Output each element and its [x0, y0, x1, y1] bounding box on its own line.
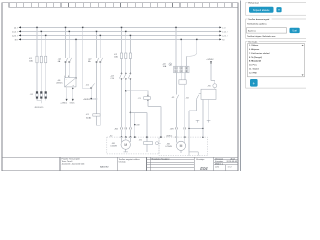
svg-text:Joonestik: Joonestik 02b: Joonestik: Joonestik 02b	[62, 163, 86, 166]
wire Q4 to overload	[181, 73, 185, 80]
bracket terminal under M2	[189, 152, 198, 156]
svg-text:L1 /: L1 /	[222, 27, 226, 29]
svg-text:24VDC: 24VDC	[56, 82, 63, 84]
svg-text:0.55kW: 0.55kW	[110, 146, 117, 148]
svg-text:-R1: -R1	[139, 140, 142, 142]
sheet frame	[2, 3, 238, 171]
node +24VDC / 0VDC arrows	[66, 99, 68, 101]
aux symbol on Q4	[169, 63, 172, 66]
enclosure dashed box M2	[159, 137, 208, 156]
title block	[2, 157, 238, 171]
ground stub under M1	[124, 149, 128, 152]
svg-text:M: M	[180, 144, 183, 148]
svg-text:A1 A2: A1 A2	[86, 117, 91, 120]
sidebar add button	[250, 79, 258, 87]
wire +24VDC to lamp	[211, 64, 215, 90]
svg-text:N /: N /	[15, 39, 18, 41]
wire A1 outputs	[203, 99, 209, 137]
wire to resistor R1	[130, 112, 147, 152]
node +24VDC rail	[90, 98, 92, 99]
svg-text:=: =	[73, 85, 74, 87]
fuse F2 (3 poles)	[120, 53, 131, 59]
svg-text:9. Mootorid: 9. Mootorid	[249, 60, 261, 63]
svg-text:11. Switch: 11. Switch	[249, 68, 260, 71]
svg-text:Tee lisale: Tee lisale	[248, 42, 258, 44]
svg-text:+24VDC: +24VDC	[60, 103, 68, 105]
sidebar button: Kopeeri alusele	[249, 7, 274, 13]
svg-text:-Y1: -Y1	[138, 98, 141, 100]
svg-text:Piirkonnad: Piirkonnad	[248, 2, 259, 5]
svg-text:8. N (Reegel): 8. N (Reegel)	[249, 57, 262, 59]
node taps on buses for F1	[36, 27, 46, 36]
svg-text:Kopeeri alusele: Kopeeri alusele	[253, 9, 270, 12]
svg-text:-X2: -X2	[109, 135, 112, 137]
bus L1	[14, 26, 226, 29]
terminal tee symbols	[196, 120, 211, 122]
wire Q4 pole1 to K1 main	[175, 73, 177, 95]
svg-text:12. HMI: 12. HMI	[249, 72, 257, 74]
svg-text:2016-06-03: 2016-06-03	[227, 161, 238, 163]
svg-text:M: M	[124, 143, 127, 147]
breaker Q2 (2 poles)	[96, 58, 103, 63]
svg-text:+24VDC: +24VDC	[83, 99, 91, 101]
wire 24V riser	[134, 112, 136, 137]
node junction to Y1	[125, 90, 127, 92]
panel group: Tee/lae broneeringuid	[246, 17, 307, 38]
sidebar small button	[276, 7, 281, 12]
sidebar button: Uuri	[290, 28, 300, 33]
control unit A1	[201, 89, 216, 99]
wire to solenoid Y1	[126, 91, 161, 137]
svg-text:Tee/lae/otsi aadress:: Tee/lae/otsi aadress:	[247, 22, 267, 25]
svg-text:Muudatus Kuupäev: Muudatus Kuupäev	[152, 157, 171, 160]
svg-text:+: +	[252, 81, 255, 86]
node taps for Q1	[65, 27, 70, 32]
svg-text:Otsinuk: Otsinuk	[119, 160, 127, 163]
svg-text:-S3: -S3	[186, 97, 189, 99]
connector contacts row (plug X2)	[121, 127, 132, 129]
column ruler strip	[9, 3, 238, 8]
wire drops to fuse F2	[122, 27, 131, 137]
breaker Q3 (3 poles)	[119, 73, 131, 80]
wire drops to starter Q4	[176, 27, 197, 66]
svg-text:7. Eriti/vastas ahelad: 7. Eriti/vastas ahelad	[249, 52, 270, 55]
wire N drop to PSU corner	[75, 39, 77, 77]
breaker Q1 (2 poles)	[65, 58, 72, 63]
sidebar input	[247, 28, 287, 33]
sensor B1	[155, 142, 158, 145]
panel group: Piirkonnad	[246, 1, 307, 15]
drawing canvas right border	[239, 1, 241, 172]
svg-text:4. Alajaam: 4. Alajaam	[249, 48, 259, 51]
contact S3	[196, 94, 201, 100]
svg-text:~: ~	[66, 80, 67, 82]
bus L2.1	[12, 34, 228, 37]
wire L1/L1.1/L2.1 drops to fuse F1	[37, 27, 46, 100]
wire riser to sensor	[158, 142, 161, 144]
svg-text:L1 /: L1 /	[14, 27, 18, 29]
svg-text:L2.1 /: L2.1 /	[222, 35, 228, 37]
wire bottom link	[189, 127, 203, 129]
list scrollbar	[302, 45, 304, 46]
svg-text:Leht: Leht	[215, 165, 219, 168]
wire K1 to M2	[175, 99, 177, 137]
wire M1 feeds	[122, 137, 131, 142]
node junction to R1	[130, 112, 132, 114]
svg-text:-K1: -K1	[86, 114, 89, 116]
relay coil K1	[93, 114, 100, 116]
svg-text:Kinnitaja: Kinnitaja	[196, 158, 205, 161]
svg-text:-K1: -K1	[171, 97, 174, 99]
wire drops to breaker Q2	[97, 31, 101, 125]
svg-text:L2.1 /: L2.1 /	[12, 35, 18, 37]
node bulkhead nubs on box tops	[121, 136, 204, 137]
solenoid Y1	[144, 97, 151, 100]
svg-text:L1.1 /: L1.1 /	[12, 31, 18, 33]
wire W1 link under X1	[37, 100, 41, 103]
svg-text:0VDC: 0VDC	[70, 103, 75, 105]
svg-text:Uuri: Uuri	[292, 30, 297, 33]
svg-text:0.75kW: 0.75kW	[165, 146, 172, 148]
svg-text:»: »	[278, 8, 280, 12]
enclosure dashed box M1	[107, 137, 159, 154]
node junction dots	[188, 128, 189, 129]
svg-text:E04: E04	[200, 166, 208, 171]
svg-text:Tee/lae broneeringuid: Tee/lae broneeringuid	[248, 18, 270, 21]
terminal X1 (3 double blocks)	[36, 91, 47, 98]
svg-text:-H1: -H1	[208, 86, 211, 88]
motor M1	[121, 140, 130, 149]
svg-text:Tee/lae tüüpne. Eelistele vms: Tee/lae tüüpne. Eelistele vms	[247, 35, 276, 38]
wire drop to K1 aux contact	[83, 27, 97, 99]
contact K1 main	[176, 95, 178, 100]
wire overload to M2	[184, 84, 186, 137]
wire M2 feed stubs	[176, 137, 184, 143]
fuse F1 (3 poles)	[36, 56, 47, 63]
contact K1 aux	[91, 83, 95, 88]
svg-text:-W1 3G2.5: -W1 3G2.5	[34, 107, 43, 109]
panel group: Tee lisale	[246, 40, 307, 88]
wire crossing hop	[186, 53, 196, 57]
svg-text:+24VDC: +24VDC	[206, 59, 214, 61]
svg-text:Mõõt 1:1: Mõõt 1:1	[215, 162, 224, 165]
resistor R1	[144, 142, 153, 145]
overload relay F3	[179, 80, 186, 84]
node L N labels	[64, 76, 70, 78]
motor starter Q4	[174, 66, 189, 73]
svg-text:BACKE2: BACKE2	[100, 165, 109, 168]
svg-text:1. Üldosa: 1. Üldosa	[249, 44, 259, 47]
connector contacts on M2 wires	[176, 127, 186, 129]
svg-text:10. PLC: 10. PLC	[249, 65, 257, 67]
svg-text:Aadress: Aadress	[248, 30, 257, 33]
lamp H1	[213, 84, 217, 88]
svg-text:24VDC: 24VDC	[166, 136, 173, 138]
wire S3 riser	[189, 99, 196, 151]
bus L1.1	[12, 30, 228, 33]
power supply G1 24VDC	[65, 78, 76, 87]
svg-text:N /: N /	[222, 39, 225, 41]
bus N	[15, 38, 226, 41]
wire drops to breaker Q1	[66, 27, 70, 77]
sidebar list box	[248, 44, 305, 77]
wire PSU outputs	[67, 87, 73, 99]
svg-text:L1.1 /: L1.1 /	[222, 31, 228, 33]
node taps for F2	[121, 27, 131, 36]
motor M2	[176, 141, 185, 150]
wire M2 bottom stub	[180, 150, 182, 153]
